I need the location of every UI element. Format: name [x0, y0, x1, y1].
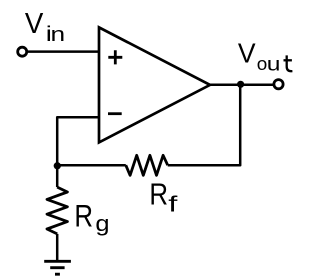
wire feedback rail left segment — [57, 164, 126, 167]
wire input to non-inverting input — [27, 50, 99, 53]
svg-text:V: V — [238, 37, 256, 69]
wire op-amp output — [210, 84, 274, 87]
label Rg — [74, 199, 109, 236]
svg-text:R: R — [149, 178, 168, 213]
svg-text:u: u — [267, 53, 281, 75]
svg-text:g: g — [95, 213, 109, 237]
wire inverting input to feedback node — [57, 117, 99, 165]
wire Rg to ground — [56, 234, 59, 260]
label Vin — [25, 7, 65, 46]
node output junction — [237, 81, 244, 88]
svg-text:n: n — [51, 23, 66, 46]
wire junction to Rg — [56, 165, 59, 187]
svg-text:R: R — [74, 199, 93, 234]
label Rf — [149, 178, 177, 217]
svg-text:f: f — [168, 192, 177, 216]
wire output junction down to feedback rail — [168, 85, 241, 165]
output terminal Vout — [274, 80, 283, 89]
input terminal Vin — [18, 47, 27, 56]
ground — [44, 261, 71, 274]
label Vout — [238, 37, 293, 75]
node feedback junction — [54, 162, 61, 169]
op-amp + input marker — [108, 50, 122, 64]
op-amp U1 — [99, 27, 210, 142]
resistor Rg — [47, 187, 67, 234]
resistor Rf — [126, 155, 168, 175]
svg-text:V: V — [25, 7, 44, 40]
op-amp - input marker — [108, 112, 122, 115]
svg-text:o: o — [257, 54, 268, 75]
